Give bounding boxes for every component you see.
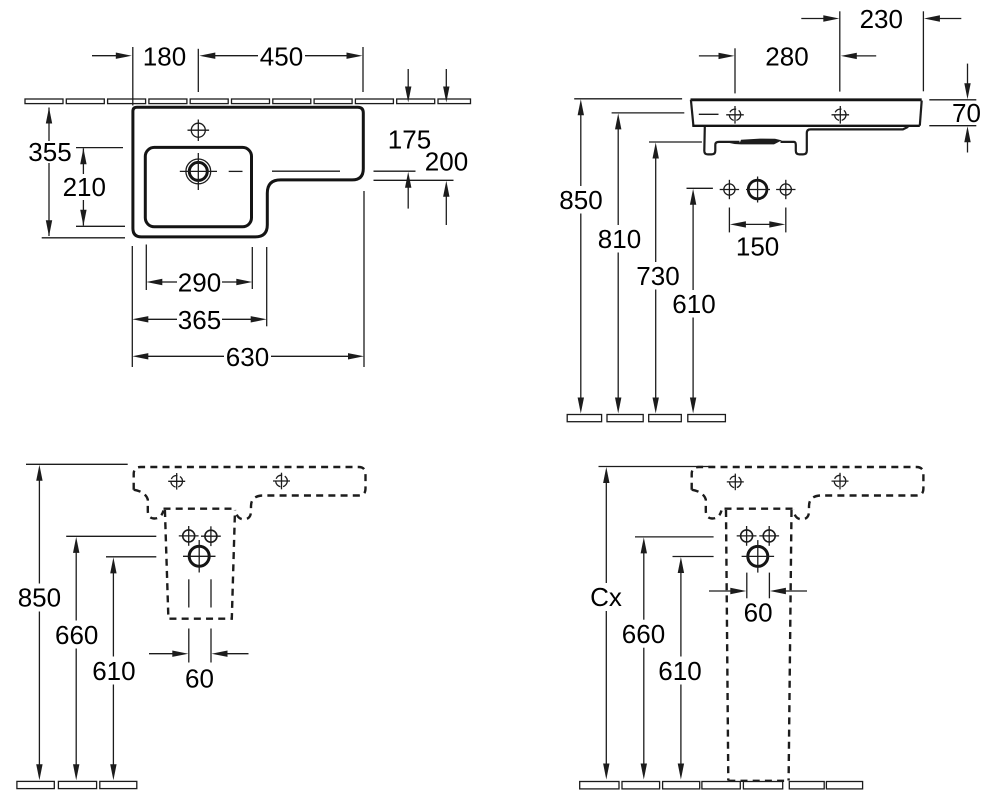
dimension 150 [728,208,730,233]
dimension 290 [145,245,147,291]
dimension 230 [839,11,841,91]
svg-text:730: 730 [636,261,679,291]
svg-text:280: 280 [765,42,808,72]
dimension 355 [48,108,50,142]
svg-text:610: 610 [658,656,701,686]
svg-text:630: 630 [226,342,269,372]
dimension 210 [76,147,123,149]
svg-text:610: 610 [92,656,135,686]
extension line basin left edge [132,47,134,106]
svg-text:180: 180 [143,42,186,72]
svg-text:60: 60 [185,663,214,693]
dimension 60 [188,579,190,607]
VIEW1 plan view [25,42,471,372]
svg-text:850: 850 [559,185,602,215]
dashed basin outline [692,467,924,496]
svg-text:150: 150 [736,231,779,261]
svg-text:230: 230 [860,4,903,34]
dimension 70 [929,99,976,101]
svg-text:200: 200 [425,147,468,177]
svg-text:610: 610 [672,289,715,319]
down arrows to wall [407,69,409,89]
skirt underside [704,127,739,154]
svg-text:660: 660 [622,619,665,649]
slab holes [729,109,740,120]
dimension 60 [746,573,748,599]
faucet hole [191,123,205,137]
extension line faucet center [197,49,199,92]
dimension 450 [199,53,215,59]
dimension 630 [363,191,365,367]
faucet holes [171,476,183,488]
dimension 365 [131,246,133,367]
drain [748,546,768,566]
svg-text:450: 450 [260,42,303,72]
svg-text:Cx: Cx [590,582,622,612]
dimension 180 [92,55,118,57]
floor hatch [580,782,863,789]
dimensions 850 810 730 610 [574,98,682,100]
drain trio [724,184,735,195]
wall hatch row [25,99,471,104]
VIEW3 front view with short pedestal [17,464,366,788]
dark trap band [730,139,782,145]
extension line basin right edge [362,47,364,92]
svg-text:70: 70 [952,98,981,128]
svg-text:850: 850 [18,583,61,613]
VIEW4 front view with full pedestal [580,467,924,789]
dimensions Cx 660 610 [599,466,714,468]
svg-text:355: 355 [28,137,71,167]
svg-text:290: 290 [178,268,221,298]
VIEW2 side view [559,4,981,422]
svg-text:365: 365 [178,305,221,335]
drain [189,546,209,566]
svg-text:60: 60 [744,598,773,628]
floor hatch [567,415,725,422]
svg-text:660: 660 [55,620,98,650]
basin outer outline [133,107,363,237]
mounting holes [741,530,753,542]
dashed basin outline [134,467,366,496]
inner basin [145,147,251,226]
dimension 280 [734,48,736,93]
svg-text:810: 810 [598,224,641,254]
slab [691,98,922,101]
dimensions 850 660 610 [26,463,128,465]
svg-text:210: 210 [63,172,106,202]
mounting holes [183,530,195,542]
drain [186,159,211,184]
faucet holes [730,476,742,488]
floor hatch [17,781,137,788]
